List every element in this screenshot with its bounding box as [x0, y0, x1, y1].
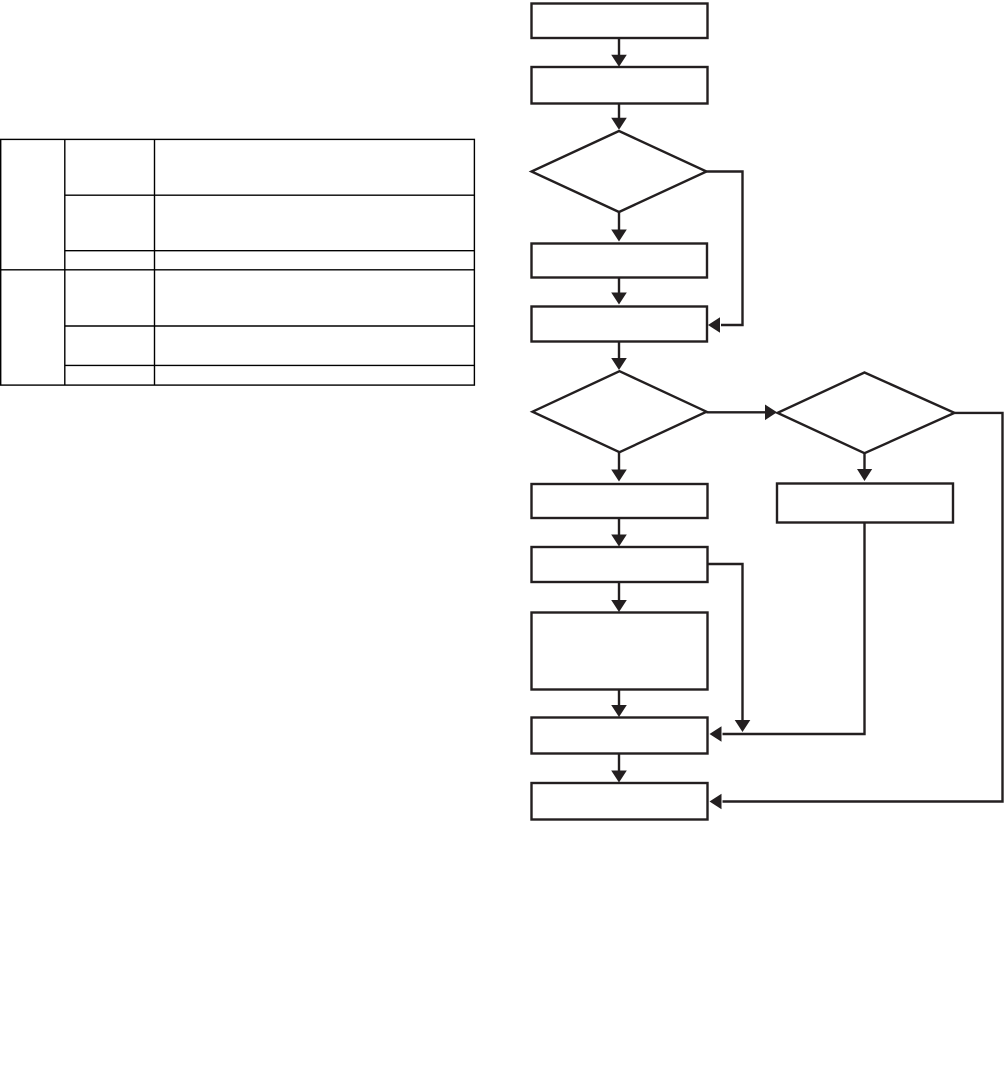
- process box B5b: [777, 484, 953, 523]
- decision diamond D2: [533, 371, 707, 452]
- arrow D3 to B5b: [857, 453, 872, 481]
- arrow B3 to B4: [611, 278, 627, 305]
- arrow B7 to B8: [611, 690, 627, 718]
- connector B5b to B8: [710, 523, 865, 742]
- process box B8: [532, 718, 708, 754]
- decision diamond D3: [778, 373, 955, 454]
- decision diamond D1: [532, 131, 707, 212]
- arrow B2 to D1: [611, 104, 627, 130]
- process box B5: [532, 484, 708, 518]
- process box B4: [532, 307, 708, 342]
- connector B6 branch down: [708, 564, 751, 732]
- arrow B4 to D2: [611, 342, 627, 371]
- process box B7: [532, 613, 708, 690]
- arrow D2 to B5: [611, 452, 627, 481]
- connector D1 loop to B4: [707, 172, 743, 333]
- arrow B6 to B7: [611, 582, 627, 612]
- arrow B1 to B2: [611, 38, 627, 67]
- table: [1, 139, 475, 385]
- arrow B5 to B6: [611, 518, 627, 547]
- process box B3: [532, 244, 708, 278]
- arrow D2 to D3: [707, 405, 778, 421]
- arrow B8 to B9: [611, 754, 627, 783]
- connector D3 loop to B9: [710, 413, 1003, 809]
- process box B1: [532, 4, 708, 39]
- process box B2: [532, 67, 708, 104]
- arrow D1 to B3: [611, 212, 627, 242]
- process box B6: [532, 547, 708, 582]
- process box B9: [532, 783, 708, 820]
